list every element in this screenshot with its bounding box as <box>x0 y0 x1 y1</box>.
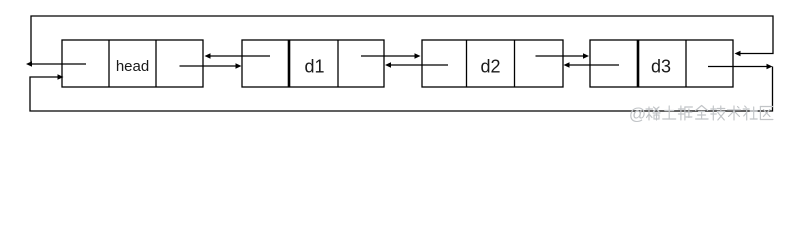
node d2 divider 1 <box>466 40 468 87</box>
wire d1.next to d2 <box>361 55 416 57</box>
watermark glyph 8 <box>760 106 773 108</box>
wire d2.prev to d1 <box>390 64 448 66</box>
wire head.next to d1 <box>180 65 237 67</box>
arrowhead d2.prev into d1 right wall (left) <box>385 62 391 67</box>
node d1 divider 2 <box>337 40 339 87</box>
node d2 box <box>422 40 563 87</box>
wire d1.prev to head <box>210 55 270 57</box>
arrowhead head.next into d1 left wall (right) <box>236 63 242 68</box>
watermark glyph 6 <box>728 109 741 111</box>
wire d2.next to d3 <box>536 55 584 57</box>
watermark glyph 3 <box>680 106 682 120</box>
svg-text:d2: d2 <box>480 57 500 77</box>
wire bottom wrap (d3.next to head) <box>30 67 773 112</box>
arrowhead d1.prev into head right wall (left) <box>205 53 211 58</box>
arrowhead d3.next (right, at bottom-wrap corner) <box>767 64 773 69</box>
watermark juejin <box>629 105 773 124</box>
watermark glyph 4 <box>696 106 702 111</box>
watermark glyph 1 <box>648 107 650 120</box>
svg-text:d3: d3 <box>651 57 671 77</box>
wire d3.prev to d2 <box>569 64 619 66</box>
wire top wrap (head.prev to d3) <box>31 16 773 64</box>
arrowhead d2.next into d3 left wall (right) <box>583 53 589 58</box>
wire head.prev stub <box>31 63 86 65</box>
node d1 divider 1 (thick) <box>288 40 291 87</box>
arrowhead into head left wall (right) <box>58 74 64 79</box>
arrowhead head.prev (left, at top-wrap corner) <box>26 61 32 66</box>
arrowhead d1.next into d2 left wall (right) <box>415 53 421 58</box>
node d3 divider 1 (thick) <box>637 40 640 87</box>
watermark glyph 7 <box>745 106 747 108</box>
svg-text:head: head <box>116 58 149 75</box>
node d3 divider 2 <box>685 40 687 87</box>
arrowhead into d3 right wall (left) <box>735 51 741 56</box>
node d1 box <box>242 40 384 87</box>
node d2 divider 2 <box>514 40 516 87</box>
svg-text:@: @ <box>629 105 646 124</box>
node d3 box <box>590 40 733 87</box>
watermark glyph 2 <box>665 110 674 112</box>
watermark glyph 5 <box>712 106 714 120</box>
node head box <box>62 40 203 87</box>
wire d3.next stub <box>708 66 767 68</box>
arrowhead d3.prev into d2 right wall (left) <box>564 62 570 67</box>
svg-text:d1: d1 <box>304 57 324 77</box>
node head divider 1 <box>108 40 110 87</box>
node head divider 2 <box>155 40 157 87</box>
